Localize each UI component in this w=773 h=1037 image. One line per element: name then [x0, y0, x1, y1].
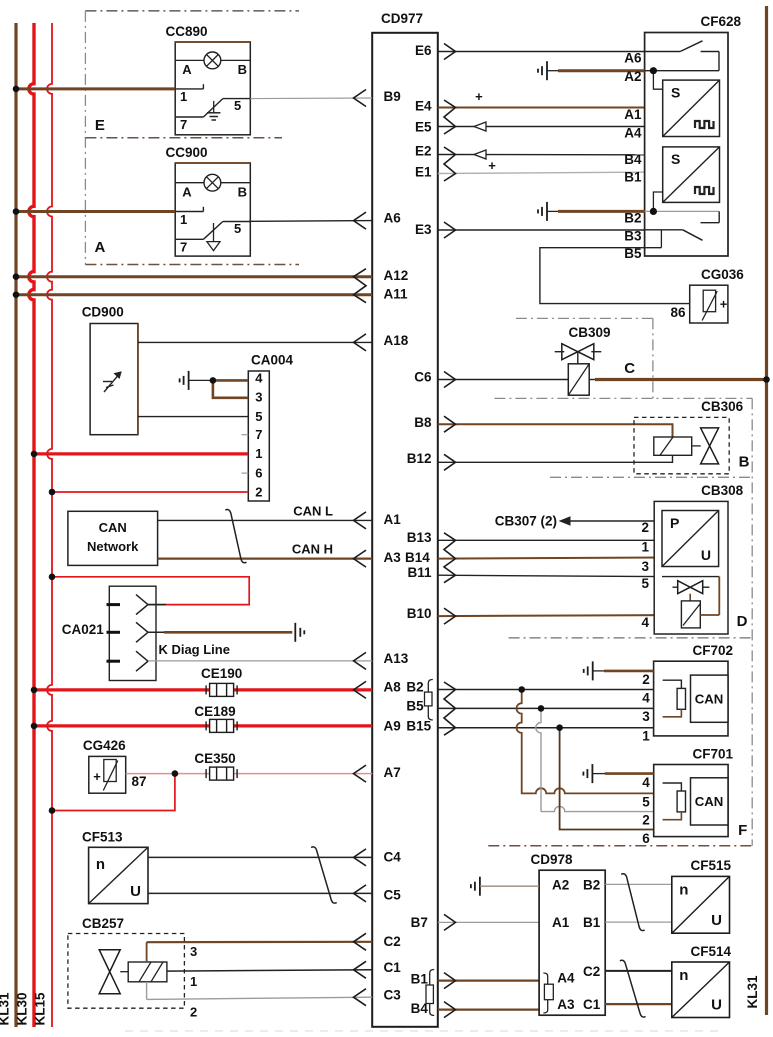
wire KL15 to CA004 pin 2 [52, 491, 248, 493]
wire KL30 to CA004 pin 1 (thick red) [34, 452, 248, 455]
wire CB257 pin1 to CD977 C1 [167, 970, 372, 971]
wire CD900 to CD977 A18 [138, 341, 372, 343]
svg-text:5: 5 [234, 221, 241, 236]
CF701 internal resistor [663, 783, 682, 791]
svg-text:K Diag Line: K Diag Line [158, 642, 230, 657]
svg-text:CE190: CE190 [201, 666, 242, 681]
svg-text:S: S [671, 85, 680, 101]
svg-text:C1: C1 [384, 960, 402, 975]
CF628 sensor2 tap to B2 [653, 192, 662, 211]
svg-text:B4: B4 [624, 152, 642, 167]
ground CD978 [479, 877, 481, 896]
wire CD977 B12 to CB306 [438, 455, 673, 462]
svg-text:A6: A6 [624, 51, 642, 66]
svg-text:CE350: CE350 [194, 751, 235, 766]
svg-text:CE189: CE189 [194, 704, 235, 719]
svg-text:6: 6 [255, 465, 262, 480]
wire CD977 E4 to CF628 A1 [438, 107, 663, 109]
CC900 internal ground (triangle) [213, 223, 215, 242]
wire CD977 B2 to CF702 pin4 [438, 689, 654, 691]
svg-text:A2: A2 [624, 69, 641, 84]
svg-text:86: 86 [670, 305, 686, 320]
svg-text:A1: A1 [552, 915, 570, 930]
wire CD977 E2 to CF628 B4 [438, 154, 663, 156]
svg-text:B1: B1 [411, 972, 429, 987]
wire CD977 B1 to CD978 A4 [438, 979, 539, 981]
wire CD977 E5 to CF628 A4 [438, 126, 663, 128]
svg-text:E4: E4 [415, 99, 432, 114]
wire KL31 to CD977 A12 [16, 275, 372, 278]
CD900 sensor symbol [104, 372, 121, 392]
wire CC900 pin5 to CD977 A6 [250, 220, 372, 223]
svg-text:CB306: CB306 [701, 399, 744, 414]
svg-text:A3: A3 [557, 997, 575, 1012]
power rail KL15 (red thin) with hops [47, 23, 52, 1027]
wire CD978 C2 to CF514 [605, 970, 672, 972]
svg-text:CA004: CA004 [251, 353, 294, 368]
power rail KL30 (red) with hops [29, 23, 34, 1027]
svg-text:4: 4 [255, 370, 263, 385]
CAN node CF702 [654, 661, 728, 736]
wire KL15 to CG426 (red) [52, 774, 175, 811]
CAN bus verticals with hops [516, 690, 653, 794]
svg-text:CAN: CAN [695, 794, 724, 809]
control unit CD978 [539, 870, 605, 1015]
wire CA021 pin3 to CD977 A13 (K diag) [148, 660, 372, 662]
control unit CD900 [90, 324, 138, 435]
ground CA004 [188, 371, 190, 390]
svg-text:B1: B1 [583, 915, 601, 930]
svg-text:1: 1 [180, 89, 187, 104]
wire KL31 to CC890 pin1 [16, 87, 175, 90]
svg-text:B1: B1 [624, 170, 642, 185]
svg-text:KL31: KL31 [745, 975, 760, 1009]
fuse CE189 [210, 719, 234, 732]
svg-text:KL30: KL30 [15, 992, 30, 1025]
CC890 pin 1 contact [175, 88, 203, 90]
CAN Network box [68, 511, 158, 565]
bottom faint dashed line [125, 1030, 720, 1032]
combo sensor unit CF628 [645, 33, 728, 257]
svg-text:2: 2 [642, 672, 650, 687]
CB257 pin wires [146, 942, 148, 962]
switch-lamp unit CC890 [175, 42, 250, 135]
svg-text:A9: A9 [384, 719, 401, 734]
relay CG036 [690, 285, 728, 323]
svg-text:4: 4 [641, 615, 649, 630]
svg-text:A8: A8 [384, 680, 402, 695]
svg-text:+: + [488, 158, 496, 173]
svg-text:CAN: CAN [99, 520, 127, 535]
svg-text:B: B [739, 454, 750, 471]
ground K-line [294, 623, 296, 642]
lamp CC890 [175, 59, 204, 61]
svg-text:1: 1 [641, 540, 649, 555]
svg-text:A4: A4 [624, 126, 642, 141]
svg-text:P: P [670, 515, 679, 531]
CD977 internal resistor B2-B5 [428, 680, 433, 721]
wire CD977 B7 to CD978 A1 [438, 921, 539, 923]
wire KL30 to CE190 to CD977 A8 (thick red) [34, 688, 372, 691]
svg-text:CB308: CB308 [701, 483, 744, 498]
connector CA021 [109, 586, 156, 680]
valve CB257 (dashed box) [68, 934, 184, 1009]
fuse CE190 [210, 683, 234, 696]
svg-text:CF513: CF513 [82, 830, 123, 845]
svg-text:A2: A2 [552, 878, 569, 893]
svg-text:3: 3 [190, 944, 197, 959]
CB257 solenoid coil [120, 971, 128, 973]
sensor CF513 [89, 847, 148, 903]
wire CD977 B10 to CB308 pin4 [438, 615, 682, 616]
zone D border [509, 637, 753, 639]
sensor CF515 [672, 876, 730, 933]
wire CB257 pin3 to CD977 C2 [147, 941, 373, 944]
svg-text:B14: B14 [405, 550, 430, 565]
svg-text:+: + [93, 769, 101, 784]
svg-text:CC890: CC890 [166, 24, 208, 39]
ground CF628-B2 [546, 202, 548, 221]
svg-text:U: U [711, 912, 722, 929]
svg-text:Network: Network [87, 539, 139, 554]
wire CD977 B4 to CD978 A3 [438, 1008, 539, 1010]
ground CF702 [592, 661, 594, 680]
CF628 A2 internal [645, 70, 719, 72]
svg-text:CF701: CF701 [692, 746, 733, 761]
CF628 top switch [645, 51, 681, 53]
relay CG426 [89, 756, 126, 793]
CAN node CF701 [654, 765, 728, 837]
svg-text:E3: E3 [415, 222, 432, 237]
svg-text:A12: A12 [384, 268, 409, 283]
wire CD977 B11 to CB308 pin5 [438, 575, 662, 576]
wire CD977 E3 to CF628 B3 [438, 229, 645, 231]
wire ground to CA004 pin 3 [213, 380, 248, 397]
CC900 pin 7 and switch blade [175, 238, 203, 240]
svg-text:KL15: KL15 [33, 992, 48, 1026]
svg-text:A3: A3 [384, 550, 402, 565]
wire CD978 C1 to CF514 [605, 1003, 672, 1005]
svg-text:E1: E1 [415, 165, 432, 180]
svg-text:CB309: CB309 [568, 325, 610, 340]
svg-text:CF514: CF514 [690, 944, 731, 959]
svg-text:D: D [737, 613, 748, 630]
svg-text:+: + [475, 89, 483, 104]
CF628 B2 internal / bottom switch [645, 210, 720, 212]
svg-text:A18: A18 [384, 333, 409, 348]
wire CF513 to CD977 C4 [148, 856, 372, 858]
svg-text:C2: C2 [384, 934, 401, 949]
svg-text:2: 2 [642, 813, 650, 828]
marker triangle E2 [474, 150, 486, 159]
svg-text:CD978: CD978 [530, 852, 573, 867]
svg-text:7: 7 [255, 427, 262, 442]
CB257 bowtie valve [99, 950, 120, 972]
svg-text:CAN: CAN [695, 692, 724, 707]
svg-text:U: U [701, 547, 711, 563]
svg-text:2: 2 [641, 520, 649, 535]
wire ground to CA004 pin 4 [213, 379, 248, 382]
wire CD977 B15 to CF702 pin1 [438, 727, 654, 729]
svg-text:1: 1 [642, 729, 650, 744]
svg-text:B13: B13 [407, 530, 432, 545]
svg-text:CB257: CB257 [82, 916, 124, 931]
svg-text:B10: B10 [407, 606, 432, 621]
lamp CC900 [175, 182, 204, 184]
CF702 internal resistor [663, 680, 682, 688]
wire CG426 87 to CE350 to CD977 A7 [126, 773, 175, 775]
svg-text:3: 3 [641, 559, 649, 574]
svg-text:A1: A1 [384, 512, 402, 527]
svg-text:A: A [182, 62, 192, 77]
wire CAN H to CD977 A3 [158, 557, 373, 559]
svg-text:CB307 (2): CB307 (2) [495, 514, 557, 529]
svg-text:F: F [738, 822, 747, 839]
zone F border [488, 845, 752, 847]
svg-text:A4: A4 [557, 971, 575, 986]
svg-text:n: n [96, 856, 105, 873]
svg-text:B15: B15 [406, 719, 431, 734]
svg-text:A: A [94, 239, 105, 256]
svg-text:A7: A7 [384, 765, 401, 780]
ECU CD977 [372, 33, 438, 1027]
svg-text:S: S [671, 151, 680, 167]
svg-text:CF702: CF702 [692, 643, 733, 658]
wire KL30 to CE189 to CD977 A9 (thick red) [34, 724, 372, 727]
CC900 pin 1 contact [175, 211, 203, 213]
wire CD977 B14 to CB308 pin3 [438, 558, 662, 559]
svg-text:E6: E6 [415, 43, 432, 58]
CF628 sensor 2 (S) [663, 147, 720, 203]
CD978 internal resistor A4-A3 [543, 973, 547, 1013]
wire CB309 to right rail (node C) [589, 379, 597, 381]
zone E/A border [85, 10, 299, 12]
CF702 CAN sub-box [691, 675, 729, 722]
svg-text:E5: E5 [415, 120, 432, 135]
svg-text:3: 3 [642, 709, 650, 724]
svg-text:2: 2 [190, 1005, 197, 1020]
svg-text:E: E [95, 117, 105, 134]
svg-text:1: 1 [180, 212, 187, 227]
svg-text:CD977: CD977 [381, 11, 423, 26]
svg-text:A1: A1 [624, 107, 642, 122]
ground CF628-A2 [546, 61, 548, 80]
svg-text:5: 5 [234, 98, 241, 113]
svg-text:+: + [720, 297, 728, 312]
svg-text:CA021: CA021 [62, 622, 105, 637]
svg-text:CF515: CF515 [690, 858, 731, 873]
svg-text:B2: B2 [583, 878, 600, 893]
svg-text:87: 87 [131, 774, 146, 789]
svg-text:C5: C5 [384, 888, 402, 903]
svg-text:6: 6 [642, 831, 650, 846]
pressure unit CB308 [654, 501, 728, 634]
wire CA021 pin2 to ground (K) [148, 631, 166, 633]
CA004 pin stubs 7,6 [242, 434, 249, 436]
wire KL15 to CA021 pin1 [52, 577, 249, 605]
twisted marker CAN wires [225, 510, 246, 563]
svg-text:A11: A11 [384, 287, 409, 302]
svg-text:U: U [130, 883, 141, 900]
svg-text:C6: C6 [414, 370, 432, 385]
svg-text:7: 7 [180, 117, 187, 132]
svg-text:B2: B2 [406, 680, 423, 695]
CF628 B5 internal link [645, 247, 662, 249]
svg-text:A13: A13 [384, 651, 409, 666]
svg-text:7: 7 [180, 240, 187, 255]
svg-text:CAN L: CAN L [293, 504, 333, 519]
wire CD977 E6 to CF628 A6 [438, 51, 645, 53]
svg-text:C3: C3 [384, 988, 402, 1003]
svg-text:CF628: CF628 [700, 14, 741, 29]
svg-text:1: 1 [190, 974, 197, 989]
svg-text:B11: B11 [407, 565, 432, 580]
svg-text:E2: E2 [415, 144, 432, 159]
svg-text:5: 5 [642, 795, 650, 810]
wire CF628 B5 to CG036 86 [540, 248, 690, 304]
svg-text:A6: A6 [384, 211, 402, 226]
svg-text:KL31: KL31 [0, 992, 12, 1026]
svg-text:B: B [238, 184, 247, 199]
CC890 pin 7 and switch blade [175, 116, 203, 118]
twisted marker C4/C5 [311, 847, 337, 903]
power rail KL31 (right, brown) [765, 6, 768, 1015]
valve CB306 (dashed) [634, 417, 729, 473]
svg-text:B12: B12 [407, 451, 432, 466]
CB308 valve part [662, 576, 719, 578]
svg-text:n: n [679, 881, 688, 898]
CF701 CAN sub-box [691, 778, 729, 825]
svg-text:C4: C4 [384, 850, 402, 865]
wire CD978 B2 to CF515 [605, 883, 672, 885]
wire KL31 to CD977 A11 [16, 293, 372, 296]
svg-text:C: C [624, 360, 635, 377]
sensor CF514 [672, 962, 730, 1018]
svg-text:CC900: CC900 [166, 145, 208, 160]
svg-text:1: 1 [255, 446, 262, 461]
fuse CE350 [210, 767, 234, 780]
svg-text:B3: B3 [624, 229, 642, 244]
svg-text:CG036: CG036 [701, 267, 744, 282]
wire CD977 B13 to CB308 pin1 [438, 539, 662, 541]
svg-text:CAN H: CAN H [292, 542, 333, 557]
zone C border [516, 317, 653, 319]
svg-text:4: 4 [642, 775, 650, 790]
switch-lamp unit CC900 [175, 163, 250, 256]
svg-text:B5: B5 [406, 699, 424, 714]
wire CF513 to CD977 C5 [148, 892, 372, 894]
svg-text:B9: B9 [384, 89, 401, 104]
wire CD978 B1 to CF515 [605, 921, 672, 923]
svg-text:B7: B7 [411, 915, 428, 930]
wire CD977 C6 to CB309 [438, 379, 569, 381]
svg-text:5: 5 [641, 576, 649, 591]
wire CD977 B8 to CB306 [438, 424, 673, 437]
wire KL31 to CC900 pin1 [16, 210, 175, 213]
svg-text:C1: C1 [583, 997, 601, 1012]
wire CD977 E1 to CF628 B1 [438, 172, 663, 174]
svg-text:n: n [679, 967, 688, 984]
svg-text:B8: B8 [414, 415, 432, 430]
power rail KL31 (left, brown) [14, 23, 17, 1027]
svg-text:C2: C2 [583, 964, 600, 979]
svg-text:U: U [711, 997, 722, 1014]
wire CD900 to CA004 pin 5 [138, 416, 248, 418]
svg-text:CD900: CD900 [82, 305, 124, 320]
svg-text:4: 4 [642, 691, 650, 706]
wire CB257 pin2 to CD977 C3 [147, 997, 373, 999]
svg-text:B: B [238, 62, 247, 77]
svg-text:2: 2 [255, 484, 262, 499]
ground CF701 [591, 764, 593, 783]
svg-text:3: 3 [255, 390, 262, 405]
CB308 P/U sensor [662, 511, 719, 567]
svg-text:CG426: CG426 [83, 738, 126, 753]
connector CA004 [248, 371, 269, 501]
marker triangle E5 [474, 122, 486, 131]
svg-text:A: A [182, 184, 192, 199]
CD977 internal resistor B1-B4 [430, 970, 435, 1016]
wire CAN L to CD977 A1 [158, 519, 373, 521]
zone B border [494, 397, 752, 399]
wire CD977 B5 to CF702 pin3 [438, 707, 654, 709]
CF628 sensor 1 (S) [663, 80, 720, 136]
svg-text:B2: B2 [624, 211, 641, 226]
CC890 internal ground [213, 101, 215, 112]
svg-text:5: 5 [255, 409, 262, 424]
wire CC890 pin5 to CD977 B9 [250, 97, 372, 100]
